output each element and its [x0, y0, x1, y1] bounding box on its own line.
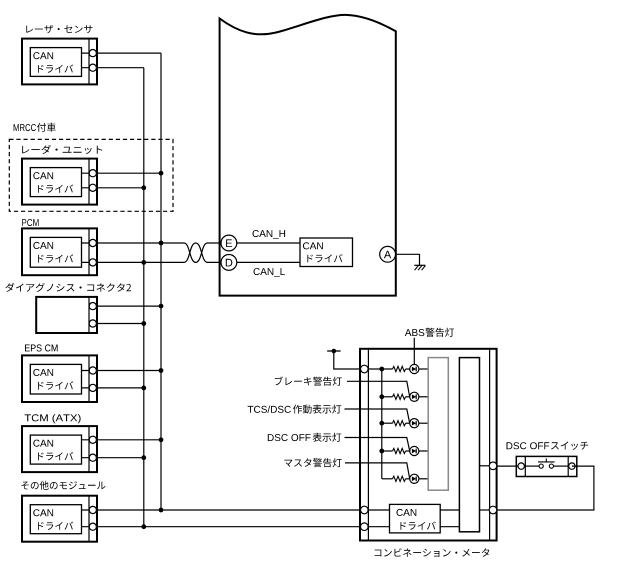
junction radar CAN_H	[159, 171, 164, 176]
pin EPS CM module CAN_L	[89, 384, 96, 391]
CAN driver block inside radar-unit module	[30, 168, 81, 197]
connector strip meter left	[367, 349, 369, 541]
label EPS CM module	[25, 344, 58, 351]
connector strip radar-unit module	[88, 159, 90, 205]
meter pin CAN_L	[361, 523, 369, 531]
wire power to meter pin	[334, 351, 393, 369]
connector strip laser-sensor module	[88, 39, 90, 85]
push switch contacts	[538, 459, 555, 469]
label TCM (ATX) module	[25, 414, 81, 423]
pin EPS CM module CAN_H	[89, 367, 96, 374]
wire EPS CM CAN_L to bus	[97, 387, 144, 389]
connector strip switch left	[524, 456, 526, 476]
power supply terminal B+	[327, 349, 340, 354]
wire lamp 3 to connector block	[419, 422, 428, 424]
wire pin E to CAN driver U1	[237, 242, 300, 244]
wire lamp 4 to connector block	[419, 450, 428, 452]
junction bus row 2	[379, 394, 384, 399]
junction meter CAN_L	[141, 524, 146, 529]
junction bus row 4	[379, 449, 384, 454]
wire PCM CAN_L twisted pair to pin D	[97, 243, 222, 262]
leader TCS/DSC label	[345, 409, 410, 423]
wire PCM module driver to pins	[82, 243, 93, 262]
label diagnosis connector 2	[5, 283, 131, 292]
wire other-modules CAN_H to meter	[97, 509, 390, 511]
pin E	[221, 235, 237, 251]
box other modules outer	[22, 496, 97, 542]
lamp ABS warning lamp	[410, 364, 419, 373]
pin PCM module CAN_H	[89, 239, 96, 246]
CAN driver block inside TCM (ATX) module	[30, 435, 81, 464]
label combination meter	[375, 548, 490, 557]
connector strip other modules	[88, 496, 90, 542]
junction bus row 1	[379, 367, 384, 372]
pin PCM module CAN_L	[89, 259, 96, 266]
leader master label	[345, 463, 410, 479]
wire lamp row 5 from bus	[382, 478, 393, 480]
wire R2 to lamp	[406, 396, 410, 398]
wire lamp 1 to connector block	[419, 368, 428, 370]
wire EPS CM CAN_H to bus	[97, 370, 162, 372]
label TCS/DSC indicator lamp	[248, 405, 342, 414]
pin switch right	[569, 463, 575, 469]
connector strip diagnosis connector 2	[88, 297, 90, 333]
bus CAN_L vertical	[143, 68, 145, 527]
wire laser CAN_H to bus	[97, 52, 162, 54]
pin D	[221, 255, 237, 271]
junction diag CAN_L	[141, 321, 146, 326]
CAN driver block inside U1	[300, 238, 353, 267]
connector strip PCM module	[88, 228, 90, 275]
meter pin power	[361, 365, 369, 373]
meter right pin 2	[489, 506, 497, 514]
wire radar-unit CAN_H to bus	[97, 172, 162, 174]
connector strip meter right	[489, 349, 491, 541]
box laser-sensor module outer	[22, 39, 97, 85]
dashed box MRCC	[9, 139, 173, 211]
pin TCM (ATX) module CAN_L	[89, 454, 96, 461]
pin radar-unit module CAN_H	[89, 170, 96, 177]
pin A	[380, 246, 396, 262]
wire display block to right pin 1	[480, 465, 490, 467]
wire meter CAN driver to display block H	[440, 509, 459, 511]
junction PCM CAN_H	[159, 241, 164, 246]
resistor R4	[393, 448, 406, 453]
junction TCM CAN_H	[159, 437, 164, 442]
meter right pin 1	[489, 462, 497, 470]
wire R4 to lamp	[406, 450, 410, 452]
wire pin A to ground	[396, 254, 420, 265]
box TCM (ATX) module outer	[22, 426, 97, 472]
CAN driver block inside meter	[390, 504, 441, 533]
wire TCM CAN_L to bus	[97, 457, 144, 459]
DSC OFF switch box SW1	[516, 456, 577, 476]
junction diag CAN_H	[159, 304, 164, 309]
resistor R5	[393, 476, 406, 481]
label DSC OFF switch	[507, 442, 589, 450]
wire lamp row 3 from bus	[382, 422, 393, 424]
net label CAN_H	[253, 230, 286, 239]
junction TCM CAN_L	[141, 455, 146, 460]
junction PCM CAN_L	[141, 260, 146, 265]
resistor R3	[393, 421, 406, 426]
net label CAN_L	[254, 268, 285, 277]
wire meter CAN driver to display block L	[440, 526, 459, 528]
label DSC OFF indicator lamp	[268, 433, 342, 442]
CAN driver block inside other modules	[30, 505, 81, 534]
wire TCM (ATX) module driver to pins	[82, 440, 93, 458]
CAN driver block inside PCM module	[30, 237, 81, 267]
connector block gray	[428, 358, 448, 491]
box EPS CM module outer	[22, 355, 97, 402]
CAN driver block inside laser-sensor module	[30, 48, 81, 77]
combination meter box	[360, 349, 497, 541]
label ABS warning lamp	[405, 328, 454, 337]
leader brake label	[347, 381, 410, 397]
lamp master warning lamp	[410, 474, 419, 483]
wire R5 to lamp	[406, 478, 410, 480]
pin laser-sensor module CAN_L	[89, 64, 96, 71]
pin other modules CAN_L	[89, 523, 96, 530]
bus CAN_H vertical	[160, 53, 162, 510]
wire diagnosis connector CAN_H to bus	[97, 305, 162, 307]
torn-top controller box U1	[220, 15, 396, 296]
wire display block to right pin 2	[480, 509, 490, 511]
wire diagnosis connector CAN_L to bus	[97, 323, 144, 325]
wire pin D to CAN driver U1	[237, 261, 300, 263]
junction EPS CAN_L	[141, 386, 146, 391]
wire radar-unit module driver to pins	[82, 173, 93, 188]
label master warning lamp	[284, 458, 341, 467]
junction bus row 3	[379, 421, 384, 426]
box PCM module outer	[22, 228, 97, 275]
wire R1 to lamp	[406, 368, 410, 370]
label MRCC-equipped vehicle	[14, 123, 56, 132]
leader ABS label to lamp	[413, 338, 415, 364]
wire other-modules CAN_L to meter	[97, 526, 390, 528]
wire laser CAN_L to bus	[97, 67, 144, 69]
wire PCM CAN_H twisted pair to pin E	[97, 243, 222, 262]
wire lamp 2 to connector block	[419, 396, 428, 398]
junction radar CAN_L	[141, 185, 146, 190]
wire other modules driver to pins	[82, 510, 93, 527]
wire radar-unit CAN_L to bus	[97, 187, 144, 189]
label radar-unit module	[22, 145, 102, 154]
wire switch internal left	[524, 465, 539, 467]
connector strip TCM (ATX) module	[88, 426, 90, 472]
leader DSC OFF label	[345, 438, 410, 452]
connector strip EPS CM module	[88, 355, 90, 402]
label laser-sensor module	[26, 25, 92, 33]
wire R3 to lamp	[406, 422, 410, 424]
internal lamp supply bus	[381, 369, 383, 479]
connector strip switch right	[567, 456, 569, 476]
pin TCM (ATX) module CAN_H	[89, 436, 96, 443]
label other modules	[22, 481, 106, 490]
CAN driver block inside EPS CM module	[30, 364, 81, 394]
ground	[414, 265, 425, 270]
lamp DSC OFF indicator lamp	[410, 446, 419, 455]
junction meter CAN_H	[159, 508, 164, 513]
junction EPS CAN_H	[159, 368, 164, 373]
wire switch internal right	[554, 465, 569, 467]
lamp brake warning lamp	[410, 392, 419, 401]
pin other modules CAN_H	[89, 506, 96, 513]
wire lamp row 2 from bus	[382, 396, 393, 398]
wire switch return to meter	[497, 466, 594, 510]
resistor R2	[393, 394, 406, 399]
wire EPS CM module driver to pins	[82, 371, 93, 388]
lamp TCS/DSC indicator lamp	[410, 419, 419, 428]
pin switch left	[518, 463, 524, 469]
wire lamp 5 to connector block	[419, 478, 428, 480]
pin diagnosis connector 2 CAN_H	[89, 303, 96, 310]
meter pin CAN_H	[361, 506, 369, 514]
pin radar-unit module CAN_L	[89, 184, 96, 191]
box diagnosis connector 2 outer	[36, 297, 97, 333]
resistor R1	[393, 366, 406, 371]
box radar-unit module outer	[22, 159, 97, 205]
label PCM module	[22, 219, 38, 226]
pin laser-sensor module CAN_H	[89, 50, 96, 57]
wire TCM CAN_H to bus	[97, 439, 162, 441]
label brake warning lamp	[275, 377, 342, 386]
wire lamp row 4 from bus	[382, 450, 393, 452]
pin diagnosis connector 2 CAN_L	[89, 320, 96, 327]
display block	[459, 358, 479, 532]
wire meter to switch	[497, 465, 522, 467]
wire laser-sensor module driver to pins	[82, 53, 93, 68]
